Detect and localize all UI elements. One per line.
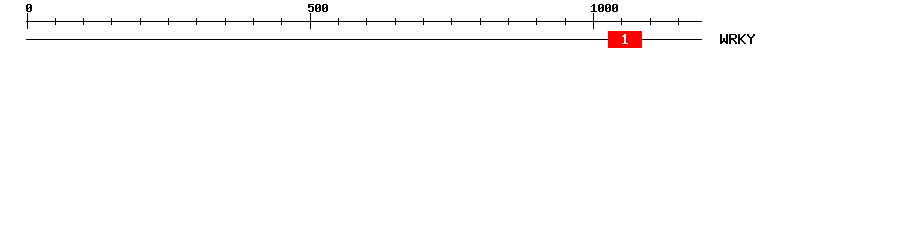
domain number 1 [622,34,628,44]
major tick 500 [310,13,311,29]
minor ticks every 50 aa [55,18,679,25]
ruler label 1000 [591,4,618,12]
ruler axis line [26,21,702,22]
ruler label 0 [26,4,32,12]
protein backbone line [26,39,702,40]
major tick 1000 [593,13,594,29]
background [0,0,900,58]
WRKY domain box 1 [608,31,642,48]
major tick 0 [27,13,28,29]
ruler label 500 [308,4,328,12]
family label WRKY [720,34,755,44]
